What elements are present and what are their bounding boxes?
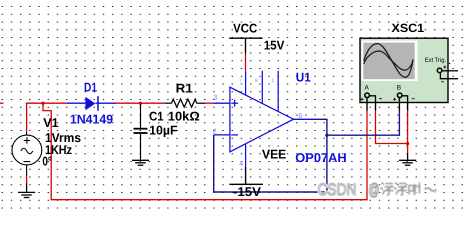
svg-text:VCC: VCC — [233, 22, 257, 36]
wire blue pin3 input stub — [213, 102, 230, 104]
svg-text:6: 6 — [298, 113, 302, 120]
scope terminal A — [361, 84, 383, 102]
svg-text:2: 2 — [213, 129, 217, 136]
watermark tilde — [425, 188, 437, 191]
wire V1 to ground red — [26, 176, 28, 184]
wire navy feedback loop — [214, 119, 327, 192]
node junction at C1 — [139, 102, 142, 105]
svg-text:Ext Trig.: Ext Trig. — [425, 57, 447, 64]
VEE power symbol -15V — [229, 167, 263, 184]
scope trace B — [364, 51, 413, 70]
svg-text:-15V: -15V — [233, 185, 262, 199]
watermark CJK glyph 2 — [394, 183, 407, 196]
svg-text:V1: V1 — [43, 116, 58, 130]
wire VCC stem red segment — [245, 53, 247, 70]
wire scope A- to ground net — [376, 111, 408, 144]
op-amp U1 — [230, 71, 294, 167]
svg-text:OP07AH: OP07AH — [295, 151, 346, 165]
svg-text:CSDN: CSDN — [318, 181, 357, 199]
svg-text:XSC1: XSC1 — [392, 21, 425, 35]
oscilloscope XSC1 body — [360, 38, 448, 102]
wire diode cathode to C1 junction to R1 — [116, 102, 165, 104]
ground below C1 — [132, 160, 149, 165]
watermark CJK glyph 1 — [381, 183, 394, 196]
scope pin stubs — [367, 98, 408, 111]
svg-text:B: B — [397, 84, 401, 91]
svg-text:0°: 0° — [42, 155, 52, 169]
svg-text:@: @ — [369, 181, 380, 199]
watermark CSDN outline text — [318, 181, 380, 199]
capacitor C1 — [134, 104, 148, 160]
ground near scope — [399, 154, 416, 166]
svg-text:10kΩ: 10kΩ — [168, 110, 200, 124]
resistor R1 — [165, 99, 205, 107]
VCC power symbol — [229, 38, 263, 53]
wire navy output to scope B+ — [327, 111, 400, 136]
svg-text:15V: 15V — [264, 38, 285, 52]
scope Ext Trig terminal — [425, 57, 458, 82]
svg-text:U1: U1 — [296, 70, 311, 84]
scope terminal B — [393, 84, 415, 102]
ground below V1 — [18, 184, 35, 198]
node junction output net — [325, 134, 328, 137]
svg-text:7: 7 — [239, 78, 242, 84]
wire stub at left edge — [0, 102, 4, 104]
wire branch jog down to bottom rail across to scope A+ — [43, 103, 367, 200]
wire scope B- down to ground — [407, 111, 409, 154]
svg-text:4: 4 — [239, 161, 243, 168]
wire blue pin2 input stub — [214, 134, 230, 136]
svg-text:R1: R1 — [176, 82, 193, 96]
svg-text:VEE: VEE — [262, 147, 286, 161]
svg-text:8: 8 — [255, 78, 258, 84]
wire V1 riser and main horizontal input net — [27, 103, 67, 132]
diode D1 — [67, 96, 116, 111]
ac source V1 — [12, 132, 42, 176]
svg-text:10µF: 10µF — [149, 123, 178, 137]
watermark CJK glyph 3 — [409, 183, 420, 195]
watermark CSDN halo — [318, 181, 380, 199]
scope trace A — [364, 44, 413, 78]
node junction A-/B- ground net — [406, 142, 409, 145]
node junction at V1 branch — [41, 102, 44, 105]
wire blue output stub — [294, 118, 312, 120]
svg-text:3: 3 — [213, 95, 217, 102]
svg-text:C1: C1 — [149, 110, 163, 124]
svg-text:D1: D1 — [84, 80, 97, 94]
svg-text:1N4149: 1N4149 — [70, 112, 113, 126]
svg-text:1: 1 — [272, 78, 275, 84]
svg-text:A: A — [365, 84, 370, 91]
wire R1 right lead red segment — [205, 102, 213, 104]
